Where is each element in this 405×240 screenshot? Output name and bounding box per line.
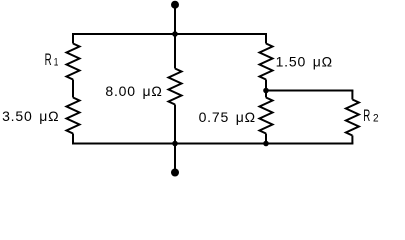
svg-text:2: 2	[373, 113, 379, 125]
resistor 0.75 uOhm (right branch bottom)	[260, 98, 273, 134]
junction right branch / mid horizontal	[263, 88, 269, 94]
svg-text:0.75 μΩ: 0.75 μΩ	[199, 109, 256, 125]
svg-text:1: 1	[54, 57, 59, 69]
wire top bus	[72, 33, 267, 35]
svg-text:1.50 μΩ: 1.50 μΩ	[276, 53, 333, 69]
junction bottom bus / middle branch	[172, 141, 178, 147]
wire bottom terminal lead	[174, 144, 176, 173]
wire right branch lower	[265, 134, 267, 144]
wire mid horizontal to R2	[266, 90, 353, 92]
resistor 3.50 uOhm (left branch bottom)	[67, 98, 80, 134]
wire bottom bus	[72, 143, 353, 145]
resistor 8.00 uOhm (middle branch)	[169, 69, 182, 105]
wire R2 branch lower	[351, 136, 353, 144]
node bottom terminal dot	[171, 169, 179, 177]
node top terminal dot	[171, 1, 179, 9]
resistor 1.50 uOhm (right branch top)	[260, 44, 273, 80]
junction bottom bus / right branch	[263, 141, 269, 147]
resistor R2	[346, 100, 359, 136]
wire top terminal lead	[174, 5, 176, 34]
wire R2 branch upper	[351, 91, 353, 100]
svg-text:R: R	[363, 107, 370, 125]
svg-text:8.00 μΩ: 8.00 μΩ	[105, 83, 162, 99]
wire right branch middle	[265, 80, 267, 98]
wire middle branch lower	[174, 105, 176, 144]
junction top bus / middle branch	[172, 31, 178, 37]
resistor R1 (left branch top)	[67, 44, 80, 80]
wire left branch lower	[72, 134, 74, 144]
wire middle branch upper	[174, 34, 176, 69]
wire left branch middle	[72, 80, 74, 98]
wire right branch upper	[265, 34, 267, 44]
svg-text:R: R	[45, 51, 52, 69]
wire left branch upper	[72, 34, 74, 44]
svg-text:3.50 μΩ: 3.50 μΩ	[2, 108, 59, 124]
